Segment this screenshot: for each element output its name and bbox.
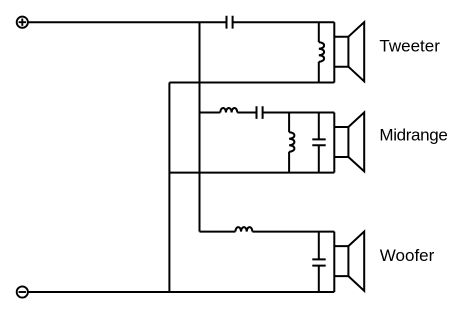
- wire: midrange return (bottom of midrange loop): [169, 172, 334, 174]
- wire: C1 to tweeter speaker (top wire right): [233, 21, 335, 23]
- capacitor C1 (tweeter series): [227, 16, 233, 29]
- speaker Woofer (driver box + horn): [334, 232, 364, 293]
- speaker Tweeter (driver box + horn): [334, 22, 364, 82]
- terminal + (positive input): [17, 17, 28, 28]
- wire: - terminal to woofer speaker (bottom return): [28, 291, 334, 293]
- wire: + bus corner to woofer inductor L4: [200, 231, 236, 233]
- capacitor C3 (midrange shunt): [312, 113, 325, 173]
- capacitor C2 (midrange series): [257, 106, 263, 119]
- terminal - (negative input): [17, 286, 28, 297]
- wire: + bus vertical: [199, 22, 201, 231]
- wire: + terminal to tweeter capacitor C1 (top wire left): [28, 21, 227, 23]
- inductor L3 (midrange shunt): [289, 113, 294, 173]
- inductor L2 (midrange series): [220, 108, 237, 113]
- svg-text:Tweeter: Tweeter: [379, 37, 440, 56]
- wire: L2 to capacitor C2: [237, 112, 256, 114]
- wire: - bus vertical: [168, 83, 170, 293]
- capacitor C4 (woofer shunt): [312, 232, 325, 292]
- speaker Midrange (driver box + horn): [334, 112, 364, 172]
- svg-text:Woofer: Woofer: [380, 246, 435, 265]
- wire: tweeter return (bottom of tweeter loop): [169, 82, 334, 84]
- svg-text:Midrange: Midrange: [379, 126, 447, 145]
- inductor L4 (woofer series): [235, 227, 252, 232]
- wire: L4 to woofer speaker (top wire right): [252, 231, 334, 233]
- wire: C2 to midrange speaker (top wire right): [263, 112, 335, 114]
- wire: + bus to midrange inductor L2: [200, 112, 221, 114]
- inductor L1 (tweeter shunt): [319, 22, 324, 82]
